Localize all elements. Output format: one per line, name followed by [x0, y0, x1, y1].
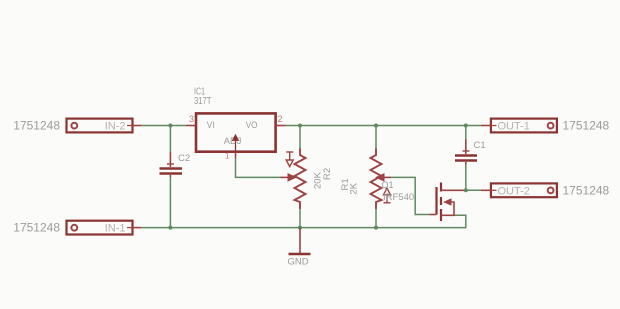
svg-text:R2: R2: [322, 168, 333, 180]
R1 wiper arrow: [375, 173, 391, 182]
connector IN-2: [67, 119, 142, 133]
gate pin stub: [430, 214, 437, 216]
junction bottom rail at R1: [374, 226, 378, 230]
wire R1 column: [375, 126, 377, 228]
gate bar: [435, 187, 437, 215]
bulk arrow: [443, 198, 452, 206]
svg-text:1751248: 1751248: [563, 183, 610, 197]
svg-text:2K: 2K: [349, 182, 360, 194]
junction OUT-2 node at C1: [464, 188, 468, 192]
wire C1 branch to OUT-2 node: [464, 126, 481, 191]
svg-text:VI: VI: [207, 120, 215, 131]
junction top rail at R1: [374, 124, 378, 128]
wire top rail IC1 VO to OUT-1: [286, 125, 481, 127]
svg-text:2: 2: [278, 114, 283, 124]
svg-text:IRF540: IRF540: [383, 192, 414, 203]
svg-text:OUT-1: OUT-1: [498, 121, 530, 133]
wire ADJ net to R2 wiper: [236, 158, 281, 177]
R1 trimmer adjust arrow: [384, 188, 391, 203]
resistor R2 trimmer zigzag: [295, 149, 306, 210]
capacitor C1: [455, 139, 477, 165]
op-amp-box IC1 voltage regulator body: [186, 113, 286, 158]
R2 trimmer adjust arrow: [286, 152, 293, 167]
svg-text:1: 1: [225, 152, 230, 161]
connector IN-1: [67, 221, 142, 235]
svg-text:C2: C2: [178, 153, 190, 164]
junction bottom rail at R2 / GND: [298, 226, 302, 230]
ADJ arrow inside IC1: [233, 135, 238, 150]
svg-text:1751248: 1751248: [563, 119, 610, 133]
wire R2 column: [299, 126, 301, 228]
junction top rail at R2: [298, 124, 302, 128]
junction top rail at C1: [464, 124, 468, 128]
svg-text:VO: VO: [246, 120, 258, 131]
svg-text:IN-1: IN-1: [105, 223, 126, 235]
svg-text:ADJ: ADJ: [224, 136, 242, 147]
svg-text:1751248: 1751248: [13, 221, 60, 235]
svg-text:IN-2: IN-2: [105, 121, 126, 133]
connector OUT-1: [481, 119, 557, 133]
junction top rail at C2: [168, 124, 172, 128]
svg-text:317T: 317T: [194, 96, 212, 107]
svg-text:C1: C1: [474, 140, 486, 151]
wire C2 branch vertical: [169, 126, 171, 228]
resistor R1 trimmer zigzag: [371, 149, 382, 210]
svg-text:1751248: 1751248: [13, 119, 60, 133]
svg-text:3: 3: [189, 114, 194, 124]
junction bottom rail at C2: [168, 226, 172, 230]
R2 wiper arrow: [281, 173, 298, 182]
source pin: [441, 214, 455, 216]
svg-text:OUT-2: OUT-2: [498, 185, 530, 197]
ground symbol GND: [289, 228, 311, 254]
wire bottom rail IN-1 to MOSFET source: [141, 215, 466, 227]
capacitor C2: [160, 152, 183, 177]
wire top rail IN-2 to IC1 VI: [141, 125, 186, 127]
svg-text:Q1: Q1: [382, 180, 394, 190]
channel segments: [440, 183, 442, 192]
drain pin: [441, 189, 464, 191]
connector OUT-2: [481, 183, 557, 197]
transistor Q1 MOSFET IRF540: [430, 183, 465, 222]
wire R1 wiper to Q1 gate: [391, 177, 430, 214]
svg-text:GND: GND: [288, 257, 309, 268]
